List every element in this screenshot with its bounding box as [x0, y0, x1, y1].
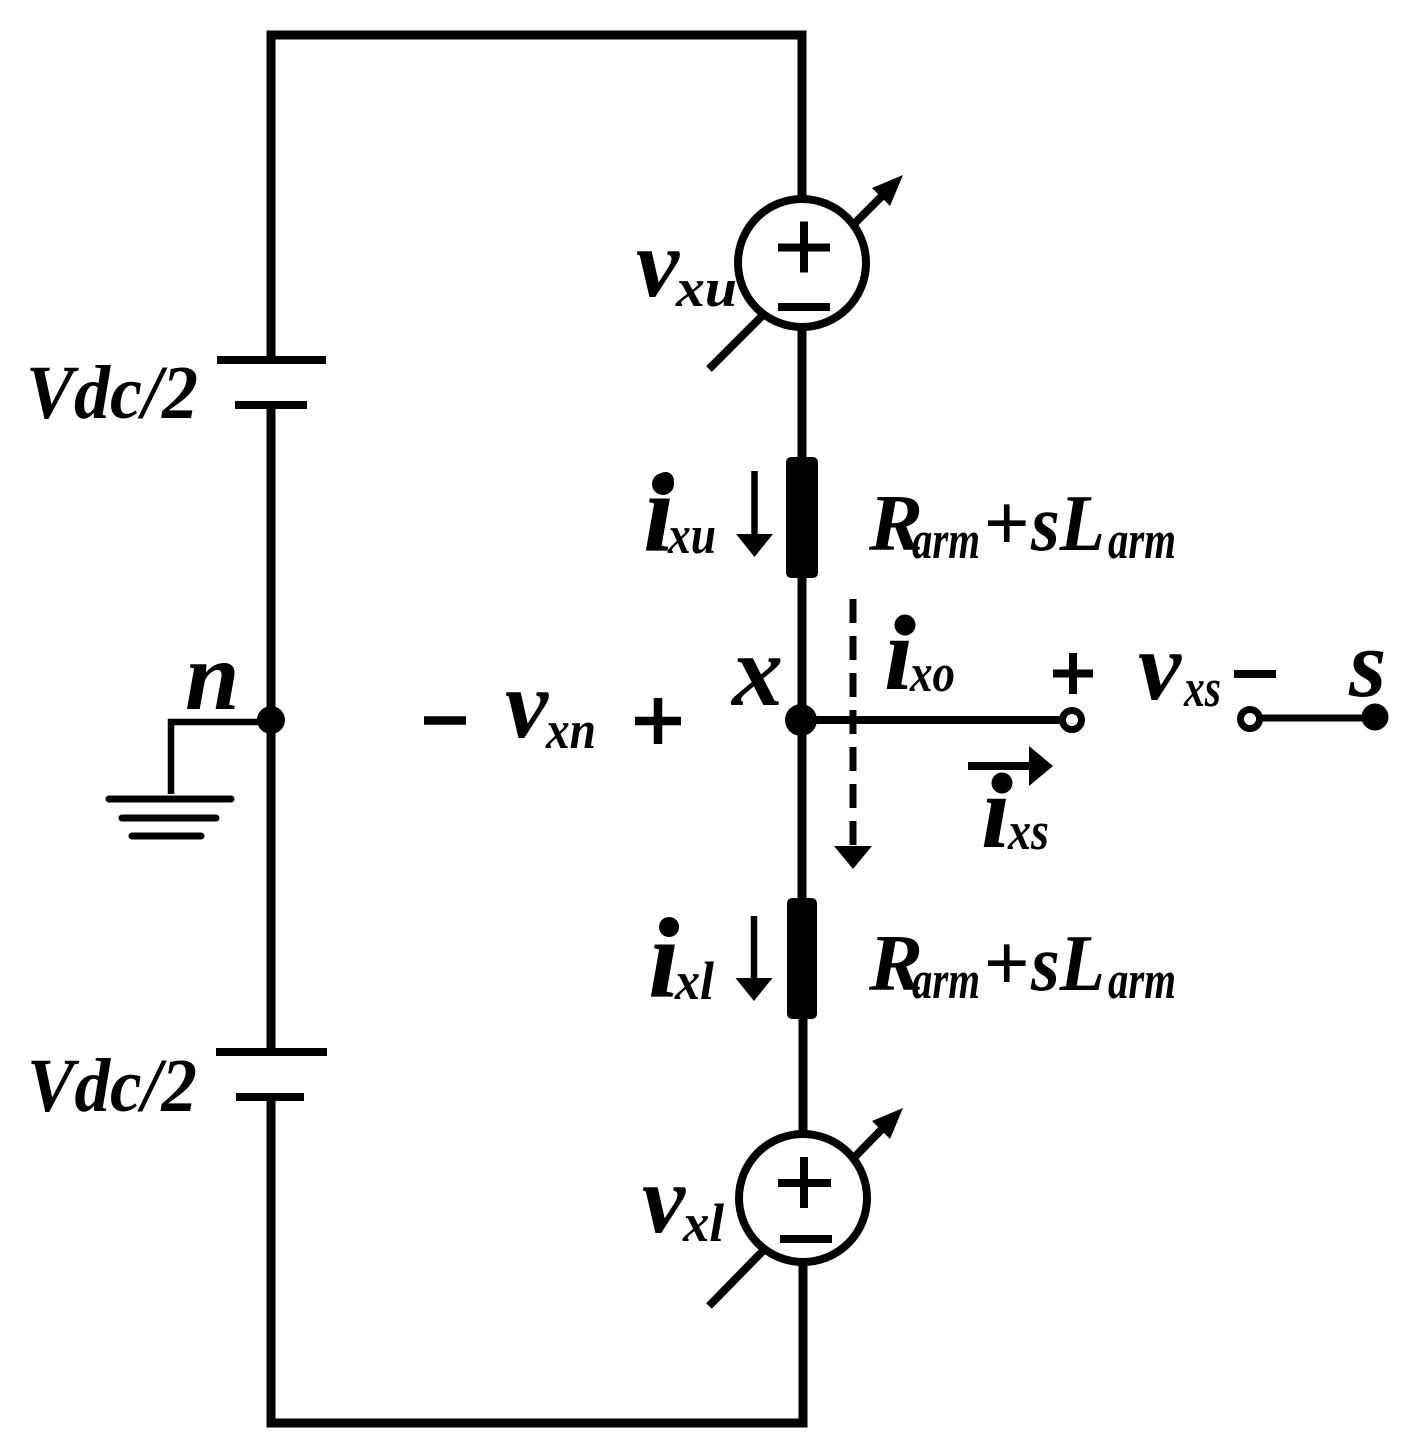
- svg-text:+: +: [983, 918, 1029, 1008]
- svg-text:v: v: [636, 210, 680, 317]
- label v_xu: [636, 210, 737, 318]
- wire resistor lower to source vxl: [799, 1019, 808, 1198]
- label minus of v_xs: [1234, 670, 1276, 678]
- svg-text:arm: arm: [1108, 510, 1176, 570]
- battery Vdc/2 upper: [217, 360, 326, 405]
- label i_xo: [884, 595, 955, 712]
- svg-text:xo: xo: [909, 643, 955, 703]
- terminal circle right: [1241, 710, 1260, 729]
- svg-text:sL: sL: [1030, 918, 1105, 1008]
- svg-text:xs: xs: [1183, 658, 1221, 718]
- svg-text:xl: xl: [674, 951, 714, 1011]
- svg-text:xl: xl: [682, 1193, 724, 1253]
- label i_xu: [643, 451, 716, 576]
- svg-text:sL: sL: [1030, 478, 1105, 568]
- svg-text:Vdc/2: Vdc/2: [26, 351, 198, 435]
- label R_arm+sL_arm upper: [868, 478, 1176, 570]
- svg-text:v: v: [505, 651, 549, 758]
- wire node x to output terminal: [801, 716, 1060, 724]
- arrow i_xu down: [736, 471, 773, 557]
- ground: [109, 799, 231, 836]
- resistor R_arm lower: [787, 898, 817, 1019]
- svg-text:v: v: [642, 1146, 686, 1253]
- source V_xl: [709, 1108, 903, 1306]
- wire ground branch: [171, 722, 271, 794]
- battery Vdc/2 lower: [216, 1052, 327, 1097]
- wire left rail middle: [267, 405, 276, 1052]
- label i_xs: [981, 753, 1049, 870]
- svg-text:xu: xu: [675, 258, 737, 318]
- svg-text:arm: arm: [912, 510, 980, 570]
- label plus of v_xn: [635, 698, 681, 744]
- wire left rail upper: [267, 31, 276, 357]
- svg-text:Vdc/2: Vdc/2: [27, 1044, 197, 1128]
- label v_xn: [505, 651, 596, 760]
- label i_xl: [648, 897, 714, 1022]
- svg-text:xs: xs: [1007, 801, 1049, 861]
- svg-text:n: n: [185, 623, 240, 731]
- arrow i_xl down: [736, 916, 773, 1001]
- svg-text:+: +: [983, 478, 1029, 568]
- label plus of v_xs: [1053, 653, 1093, 694]
- resistor R_arm upper: [786, 457, 818, 578]
- svg-text:xn: xn: [545, 700, 596, 760]
- wire resistor to node x to resistor lower: [798, 578, 807, 900]
- node s: [1362, 704, 1389, 731]
- svg-text:arm: arm: [912, 950, 980, 1010]
- wire top rail: [267, 31, 807, 40]
- wire bottom rail: [267, 1419, 808, 1428]
- svg-text:i: i: [884, 595, 913, 712]
- svg-text:v: v: [1138, 613, 1182, 720]
- wire source vxu to resistor: [798, 263, 807, 461]
- svg-text:s: s: [1348, 610, 1386, 717]
- svg-text:x: x: [730, 615, 783, 728]
- node n: [257, 706, 285, 734]
- svg-text:i: i: [981, 753, 1010, 870]
- arrow i_xs: [968, 746, 1053, 786]
- wire right rail upper: [798, 31, 807, 264]
- label R_arm+sL_arm lower: [868, 918, 1176, 1010]
- label minus of v_xn: [424, 716, 466, 725]
- label v_xs: [1138, 613, 1221, 720]
- label v_xl: [642, 1146, 724, 1253]
- dashed arrow i_xo: [834, 599, 872, 869]
- source V_xu: [709, 175, 903, 369]
- svg-text:xu: xu: [667, 505, 716, 565]
- svg-text:arm: arm: [1108, 950, 1176, 1010]
- wire terminal to node s: [1262, 715, 1372, 722]
- terminal circle left: [1063, 711, 1082, 730]
- wire source vxl to bottom rail: [799, 1262, 808, 1423]
- wire left rail lower: [267, 1097, 276, 1428]
- node x: [785, 704, 817, 736]
